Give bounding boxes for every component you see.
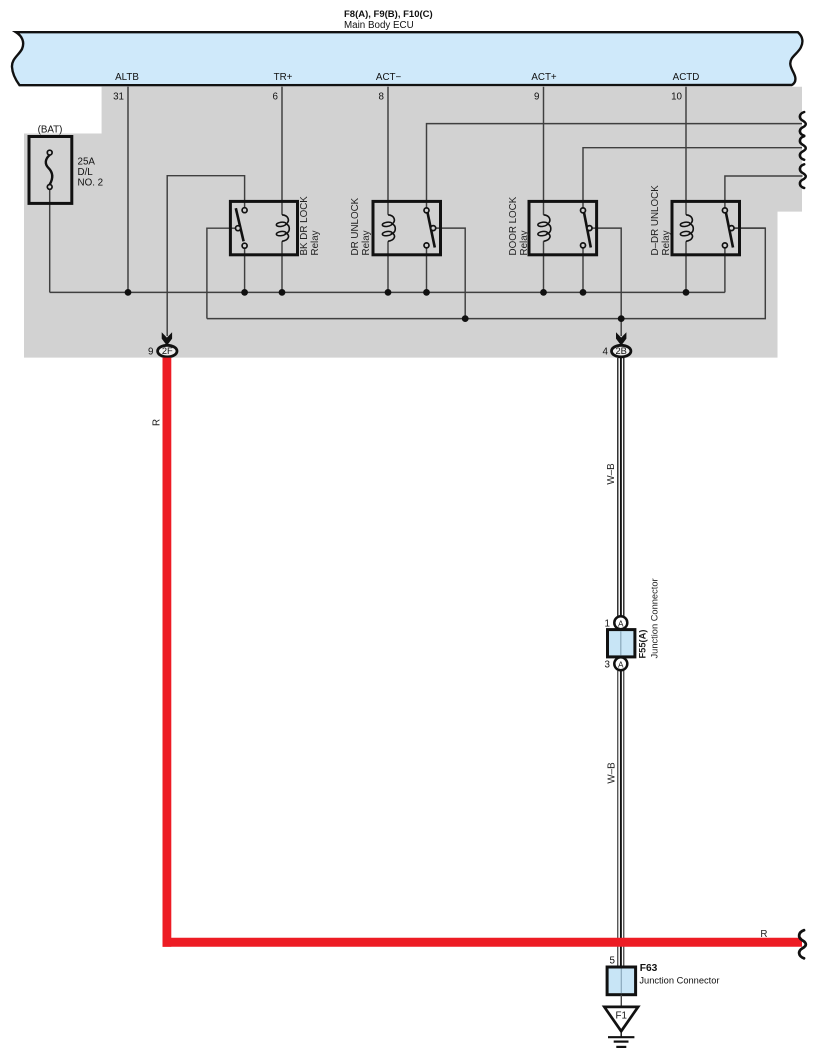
switch R4: [726, 213, 733, 248]
relay R2 DR UNLOCK: [373, 201, 441, 254]
svg-text:A: A: [618, 660, 624, 670]
wire relay3 middle contact down to 2B: [589, 228, 621, 336]
svg-text:10: 10: [671, 92, 682, 103]
svg-text:D–DR UNLOCK: D–DR UNLOCK: [650, 185, 661, 256]
svg-text:Relay: Relay: [310, 230, 321, 255]
svg-text:3: 3: [605, 659, 611, 670]
node relay1 coil/bus: [279, 289, 286, 296]
svg-text:(BAT): (BAT): [38, 125, 63, 136]
svg-text:W–B: W–B: [607, 762, 618, 784]
svg-text:Relay: Relay: [361, 230, 372, 255]
wire F63 to ground: [620, 995, 622, 1007]
svg-text:ALTB: ALTB: [115, 72, 139, 83]
node relay3 switch/bus: [580, 289, 587, 296]
coil R4: [686, 215, 693, 242]
svg-text:2B: 2B: [616, 346, 627, 356]
svg-text:4: 4: [603, 347, 609, 358]
node relay2 coil/bus: [385, 289, 392, 296]
wire relay1 middle contact to second bus: [207, 228, 240, 318]
switch R1: [236, 208, 244, 241]
svg-text:D/L: D/L: [78, 167, 94, 178]
coil R2: [388, 215, 395, 242]
svg-text:NO. 2: NO. 2: [78, 178, 104, 189]
svg-text:Relay: Relay: [661, 230, 672, 255]
junction connector F63: [607, 967, 636, 995]
junction connector F55(A): [608, 616, 635, 670]
svg-text:1: 1: [605, 618, 610, 629]
connector arrow 2B: [612, 332, 631, 357]
wire relay2 bottom contact to bus: [426, 248, 428, 292]
wire W-B lower segment (triple line): [618, 671, 624, 967]
red wire R (horizontal): [163, 938, 802, 947]
relay R4 D-DR UNLOCK: [672, 201, 740, 254]
Main Body ECU band: [12, 32, 802, 85]
svg-text:Junction Connector: Junction Connector: [650, 578, 660, 658]
node relay2 switch/bus: [423, 289, 430, 296]
svg-text:31: 31: [113, 92, 124, 103]
svg-text:25A: 25A: [78, 157, 96, 168]
wire relay1 top contact to 2F: [167, 176, 244, 336]
svg-text:DOOR LOCK: DOOR LOCK: [508, 196, 519, 255]
svg-text:ACTD: ACTD: [673, 72, 700, 83]
gray ECU internal region: [24, 87, 802, 358]
svg-text:A: A: [618, 619, 624, 629]
wire pin9 / relay3 coil vertical: [543, 87, 545, 215]
coil R1: [282, 215, 289, 242]
svg-text:R: R: [760, 929, 767, 940]
svg-text:BK DR LOCK: BK DR LOCK: [299, 196, 310, 256]
node relay3 middle/second bus: [618, 315, 625, 322]
wire pin8 / relay2 coil vertical: [387, 87, 389, 215]
red wire R (vertical from 2F): [162, 358, 171, 947]
ground F1: [604, 1007, 638, 1047]
switch R3: [584, 213, 591, 248]
wire relay2 top contact to torn end: [427, 124, 803, 208]
torn end red wire: [799, 930, 806, 958]
wire relay2 middle contact down: [434, 228, 465, 319]
svg-text:ACT+: ACT+: [531, 72, 557, 83]
svg-text:F63: F63: [640, 963, 658, 974]
node relay3 coil/bus: [540, 289, 547, 296]
torn end wire 1: [800, 112, 806, 136]
wire relay4 middle contact stub: [732, 227, 765, 229]
svg-text:8: 8: [379, 92, 385, 103]
svg-text:F55(A): F55(A): [638, 630, 648, 659]
svg-text:DR UNLOCK: DR UNLOCK: [350, 197, 361, 255]
fuse D/L NO.2: [29, 137, 72, 204]
wire relay3 top contact to torn end: [583, 148, 802, 208]
svg-text:F8(A), F9(B), F10(C): F8(A), F9(B), F10(C): [344, 9, 433, 20]
node relay4 coil/bus: [683, 289, 690, 296]
wire relay1 bottom contact to bus: [244, 248, 246, 292]
svg-text:R: R: [152, 419, 163, 426]
svg-text:Relay: Relay: [519, 230, 530, 255]
svg-text:6: 6: [273, 92, 279, 103]
wire second bus: [207, 228, 765, 319]
svg-text:TR+: TR+: [274, 72, 293, 83]
relay R3 DOOR LOCK: [529, 201, 597, 254]
wire fuse to bus: [49, 189, 51, 292]
svg-text:Main Body ECU: Main Body ECU: [344, 20, 414, 31]
svg-text:2F: 2F: [162, 346, 173, 356]
connector arrow 2F: [158, 332, 177, 357]
svg-text:5: 5: [610, 955, 616, 966]
torn end wire 3: [800, 164, 806, 188]
svg-text:Junction Connector: Junction Connector: [639, 976, 719, 986]
wire relay4 top contact to torn end: [725, 176, 803, 208]
torn end wire 2: [800, 136, 806, 160]
svg-text:9: 9: [534, 92, 539, 103]
wire pin31 vertical: [127, 87, 129, 293]
wire main bus: [50, 291, 725, 293]
svg-text:F1: F1: [615, 1010, 626, 1021]
svg-text:ACT−: ACT−: [376, 72, 402, 83]
wire W-B upper segment (triple line): [618, 358, 624, 616]
coil R3: [544, 215, 551, 242]
wire pin10 / relay4 coil vertical: [685, 87, 687, 215]
node relay1 switch/bus: [241, 289, 248, 296]
node pin31/bus: [125, 289, 132, 296]
wire relay3 bottom contact to bus: [582, 248, 584, 292]
svg-text:W–B: W–B: [606, 463, 617, 485]
relay R1 BK DR LOCK: [230, 201, 297, 254]
switch R2: [428, 213, 435, 248]
wire relay4 bottom contact to bus: [724, 248, 726, 292]
svg-text:9: 9: [148, 347, 153, 358]
wire pin6 / relay1 coil vertical: [281, 87, 283, 215]
junction dots: [125, 289, 690, 322]
node relay2 middle/second bus: [462, 315, 469, 322]
